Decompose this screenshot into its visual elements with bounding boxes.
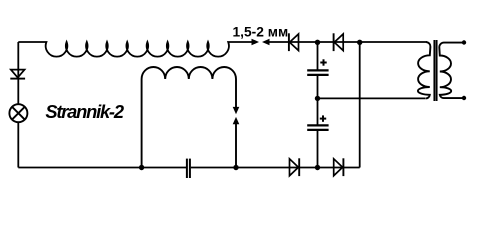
wire middle line to transformer [318, 97, 426, 99]
wire capacitor column lower [317, 130, 319, 168]
wire spark gap lower [235, 124, 237, 168]
diode VD5 (left branch, pointing down) [10, 70, 25, 79]
diode VD3 (bottom left, pointing right) [290, 158, 300, 176]
spark gap upper electrode arrow [233, 107, 240, 114]
plus sign C3 [320, 115, 326, 121]
diode VD1 (top left, pointing left) [289, 33, 299, 51]
transformer T1 primary winding [418, 42, 431, 98]
diode VD4 (bottom right, pointing right) [334, 158, 344, 176]
dimension arrow left (gap right side) [262, 39, 270, 46]
lamp HL1 [9, 104, 27, 122]
wire left vertical (source side) [17, 42, 19, 104]
junction node (capacitor column bottom) [315, 165, 320, 170]
spark gap lower electrode arrow [233, 117, 240, 124]
junction node (top of capacitor column) [315, 40, 320, 45]
junction node (spark gap bottom) [233, 165, 238, 170]
inductor L1 (primary coil, 9 scallops) [18, 42, 252, 57]
diode VD2 (top right, pointing left) [334, 33, 344, 51]
terminal node secondary top [462, 40, 466, 44]
wire below lamp [17, 123, 19, 168]
terminal node secondary bottom [462, 96, 466, 100]
inductor L2 (secondary coil, 4 arches) [142, 67, 236, 168]
wire capacitor column middle [317, 75, 319, 126]
junction node (coil L2 bottom) [139, 165, 144, 170]
plus sign C2 [320, 59, 326, 65]
wire top (gap to transformer) [269, 41, 427, 43]
capacitor C3 (electrolytic lower) [307, 125, 328, 129]
dimension arrow right (gap left side) [252, 39, 260, 46]
junction node (between capacitors) [315, 96, 320, 101]
transformer T1 core [434, 40, 436, 101]
wire bottom rail left [18, 167, 186, 169]
transformer T1 secondary winding [439, 43, 462, 99]
svg-text:Strannik-2: Strannik-2 [45, 101, 123, 122]
wire capacitor column upper [317, 42, 319, 70]
wire bottom rail right [191, 167, 360, 169]
capacitor C1 [187, 159, 190, 178]
svg-text:1,5-2 мм: 1,5-2 мм [233, 25, 289, 40]
capacitor C2 (electrolytic upper) [307, 70, 328, 75]
wire right column (bridge) [359, 42, 361, 167]
junction node (top of right column) [357, 40, 362, 45]
